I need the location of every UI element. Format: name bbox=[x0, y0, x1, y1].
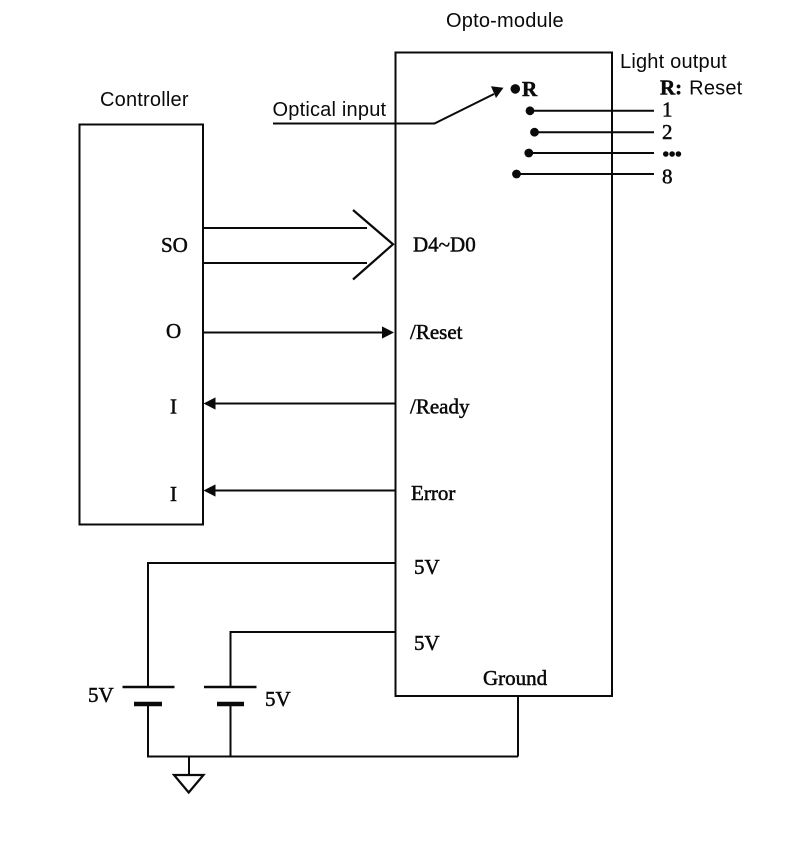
label O bbox=[166, 319, 181, 343]
wire 5V supply upper bbox=[148, 563, 395, 687]
svg-text:D4~D0: D4~D0 bbox=[413, 233, 476, 257]
svg-text:I: I bbox=[170, 395, 177, 419]
svg-text:Opto-module: Opto-module bbox=[446, 10, 564, 32]
svg-text:8: 8 bbox=[662, 165, 673, 189]
label R bbox=[522, 77, 538, 101]
wire Error arrow bbox=[204, 484, 397, 496]
svg-text:/Ready: /Ready bbox=[410, 395, 470, 419]
label Optical input bbox=[273, 99, 387, 121]
battery B1 bbox=[123, 687, 175, 758]
bus arrow SO to D4~D0 bbox=[203, 210, 393, 280]
svg-text:I: I bbox=[170, 482, 177, 506]
light output line 8 bbox=[512, 170, 654, 179]
controller box bbox=[80, 125, 204, 525]
wire 5V supply lower bbox=[231, 632, 396, 687]
wire ground bus bbox=[147, 756, 518, 758]
svg-text:SO: SO bbox=[161, 233, 188, 257]
label 8 bbox=[662, 165, 673, 189]
svg-text:5V: 5V bbox=[88, 683, 114, 707]
legend R: Reset bbox=[660, 76, 743, 100]
light output line 2 bbox=[530, 128, 654, 137]
label 5V B1 bbox=[88, 683, 114, 707]
svg-text:O: O bbox=[166, 319, 181, 343]
svg-text:Light output: Light output bbox=[620, 51, 727, 73]
label 2 bbox=[662, 120, 673, 144]
svg-text:5V: 5V bbox=[414, 555, 440, 579]
ground bbox=[174, 757, 204, 793]
label Light output bbox=[620, 51, 727, 73]
label ... bbox=[663, 151, 681, 157]
label Controller bbox=[100, 89, 189, 111]
light output line 1 bbox=[526, 106, 654, 115]
label I Error bbox=[170, 482, 177, 506]
wire /Reset arrow bbox=[203, 326, 394, 338]
pin label Ground bbox=[483, 666, 548, 690]
pin label 5V lower bbox=[414, 631, 440, 655]
svg-text:Optical input: Optical input bbox=[273, 99, 387, 121]
svg-text:5V: 5V bbox=[414, 631, 440, 655]
label 1 bbox=[662, 98, 673, 122]
pin label /Ready bbox=[410, 395, 470, 419]
label 5V B2 bbox=[265, 687, 291, 711]
svg-text:Controller: Controller bbox=[100, 89, 189, 111]
wire /Ready arrow bbox=[204, 397, 397, 409]
svg-text:2: 2 bbox=[662, 120, 673, 144]
pin label 5V upper bbox=[414, 555, 440, 579]
svg-text:5V: 5V bbox=[265, 687, 291, 711]
svg-text:R: R bbox=[522, 77, 538, 101]
pin label D4~D0 bbox=[413, 233, 476, 257]
svg-text:Ground: Ground bbox=[483, 666, 548, 690]
pin label Error bbox=[411, 481, 455, 505]
battery B2 bbox=[204, 687, 257, 758]
light output line dots bbox=[524, 149, 654, 158]
opto-module box bbox=[396, 53, 613, 697]
label I Ready bbox=[170, 395, 177, 419]
svg-text:Error: Error bbox=[411, 481, 455, 505]
label SO bbox=[161, 233, 188, 257]
wire opto ground lead bbox=[517, 696, 519, 757]
node R dot bbox=[511, 84, 521, 94]
pin label /Reset bbox=[410, 320, 463, 344]
svg-text:/Reset: /Reset bbox=[410, 320, 463, 344]
svg-text:R:Reset: R:Reset bbox=[660, 76, 743, 100]
optical input arrow bbox=[273, 86, 504, 123]
svg-text:1: 1 bbox=[662, 98, 673, 122]
label Opto-module bbox=[446, 10, 564, 32]
